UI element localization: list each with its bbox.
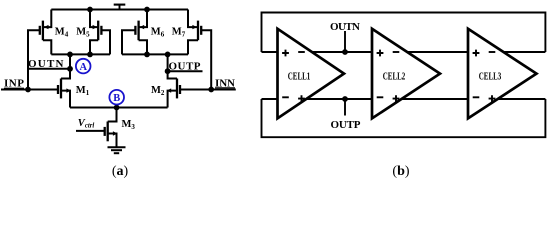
svg-text:(a): (a) [112, 164, 129, 179]
wire OUTN node vertical [69, 54, 71, 68]
pin CELL3 -out [489, 51, 496, 53]
junction drain line / OUTN vertical [67, 52, 73, 58]
wire Vctrl to M3 gate [76, 130, 105, 132]
wire INN to M2 gate [180, 89, 236, 91]
svg-text:OUTN: OUTN [330, 21, 360, 33]
wire OUTN stub [344, 31, 346, 52]
wire top rail OUTN [262, 51, 546, 53]
wire top feedback loop [262, 13, 546, 53]
junction rail/M5 source [87, 7, 93, 13]
ground [108, 147, 126, 153]
svg-text:(b): (b) [392, 164, 409, 179]
pin CELL2 -in [377, 96, 384, 98]
junction rail/M6 source [144, 7, 150, 13]
wire OUTN label lead [28, 68, 71, 70]
junction INP / M4 gate wire [25, 87, 31, 93]
wire OUTP label lead [168, 70, 203, 72]
wire M4 gate to INP node [28, 30, 40, 89]
pin CELL3 +in [473, 50, 480, 57]
pin CELL1 -in [282, 96, 289, 98]
pin CELL2 +in [377, 50, 384, 57]
transistor M1 [58, 69, 71, 108]
wire M5 gate to OUTN drain line [101, 30, 110, 54]
amplifier CELL2 [372, 29, 440, 119]
amplifier CELL3 [468, 29, 537, 119]
svg-text:B: B [113, 93, 120, 104]
junction drain line / M5 drain [87, 52, 93, 58]
junction OUTP node [165, 68, 171, 74]
transistor M4 [40, 10, 52, 55]
wire M6 gate to OUTP drain line [122, 30, 135, 54]
junction drain line / OUTP vertical [165, 52, 171, 58]
svg-text:CELL2: CELL2 [383, 71, 406, 82]
pin CELL3 +out [489, 95, 496, 102]
svg-text:OUTP: OUTP [169, 60, 201, 72]
power VDD symbol [114, 5, 126, 10]
pin CELL3 -in [473, 96, 480, 98]
node A [76, 59, 91, 74]
svg-text:CELL1: CELL1 [288, 71, 311, 82]
junction tail node B [114, 105, 120, 111]
wire OUTP stub [344, 99, 346, 116]
junction OUTN node [67, 66, 73, 72]
pin CELL2 +out [393, 95, 400, 102]
pin CELL1 +out [298, 95, 305, 102]
underline INP [4, 87, 24, 89]
wire tail node [70, 107, 168, 109]
underline INN [215, 87, 235, 89]
svg-text:CELL3: CELL3 [479, 71, 502, 82]
pin CELL1 +in [282, 50, 289, 57]
pin CELL1 -out [298, 51, 305, 53]
transistor M3 [105, 108, 118, 148]
transistor M2 [167, 71, 180, 107]
wire INP to M1 gate [1, 89, 58, 91]
wire bottom rail OUTP [262, 98, 546, 100]
junction drain line / M6 drain [144, 52, 150, 58]
wire OUTP node vertical [167, 54, 169, 71]
amplifier CELL1 [278, 29, 345, 119]
pin CELL2 -out [393, 51, 400, 53]
transistor M7 [188, 10, 201, 55]
svg-text:A: A [79, 62, 87, 73]
svg-text:OUTP: OUTP [331, 119, 361, 131]
wire bottom feedback loop [262, 99, 546, 137]
transistor M5 [90, 10, 101, 55]
junction INN / M7 gate wire [208, 87, 214, 93]
wire OUTP drain line [122, 53, 188, 55]
wire OUTN drain line [51, 53, 110, 55]
wire VDD rail [51, 9, 188, 11]
node B [109, 90, 124, 105]
wire M7 gate to INN node [201, 30, 211, 89]
transistor M6 [135, 10, 147, 55]
junction OUTN tap [342, 49, 348, 55]
junction OUTP tap [342, 96, 348, 102]
